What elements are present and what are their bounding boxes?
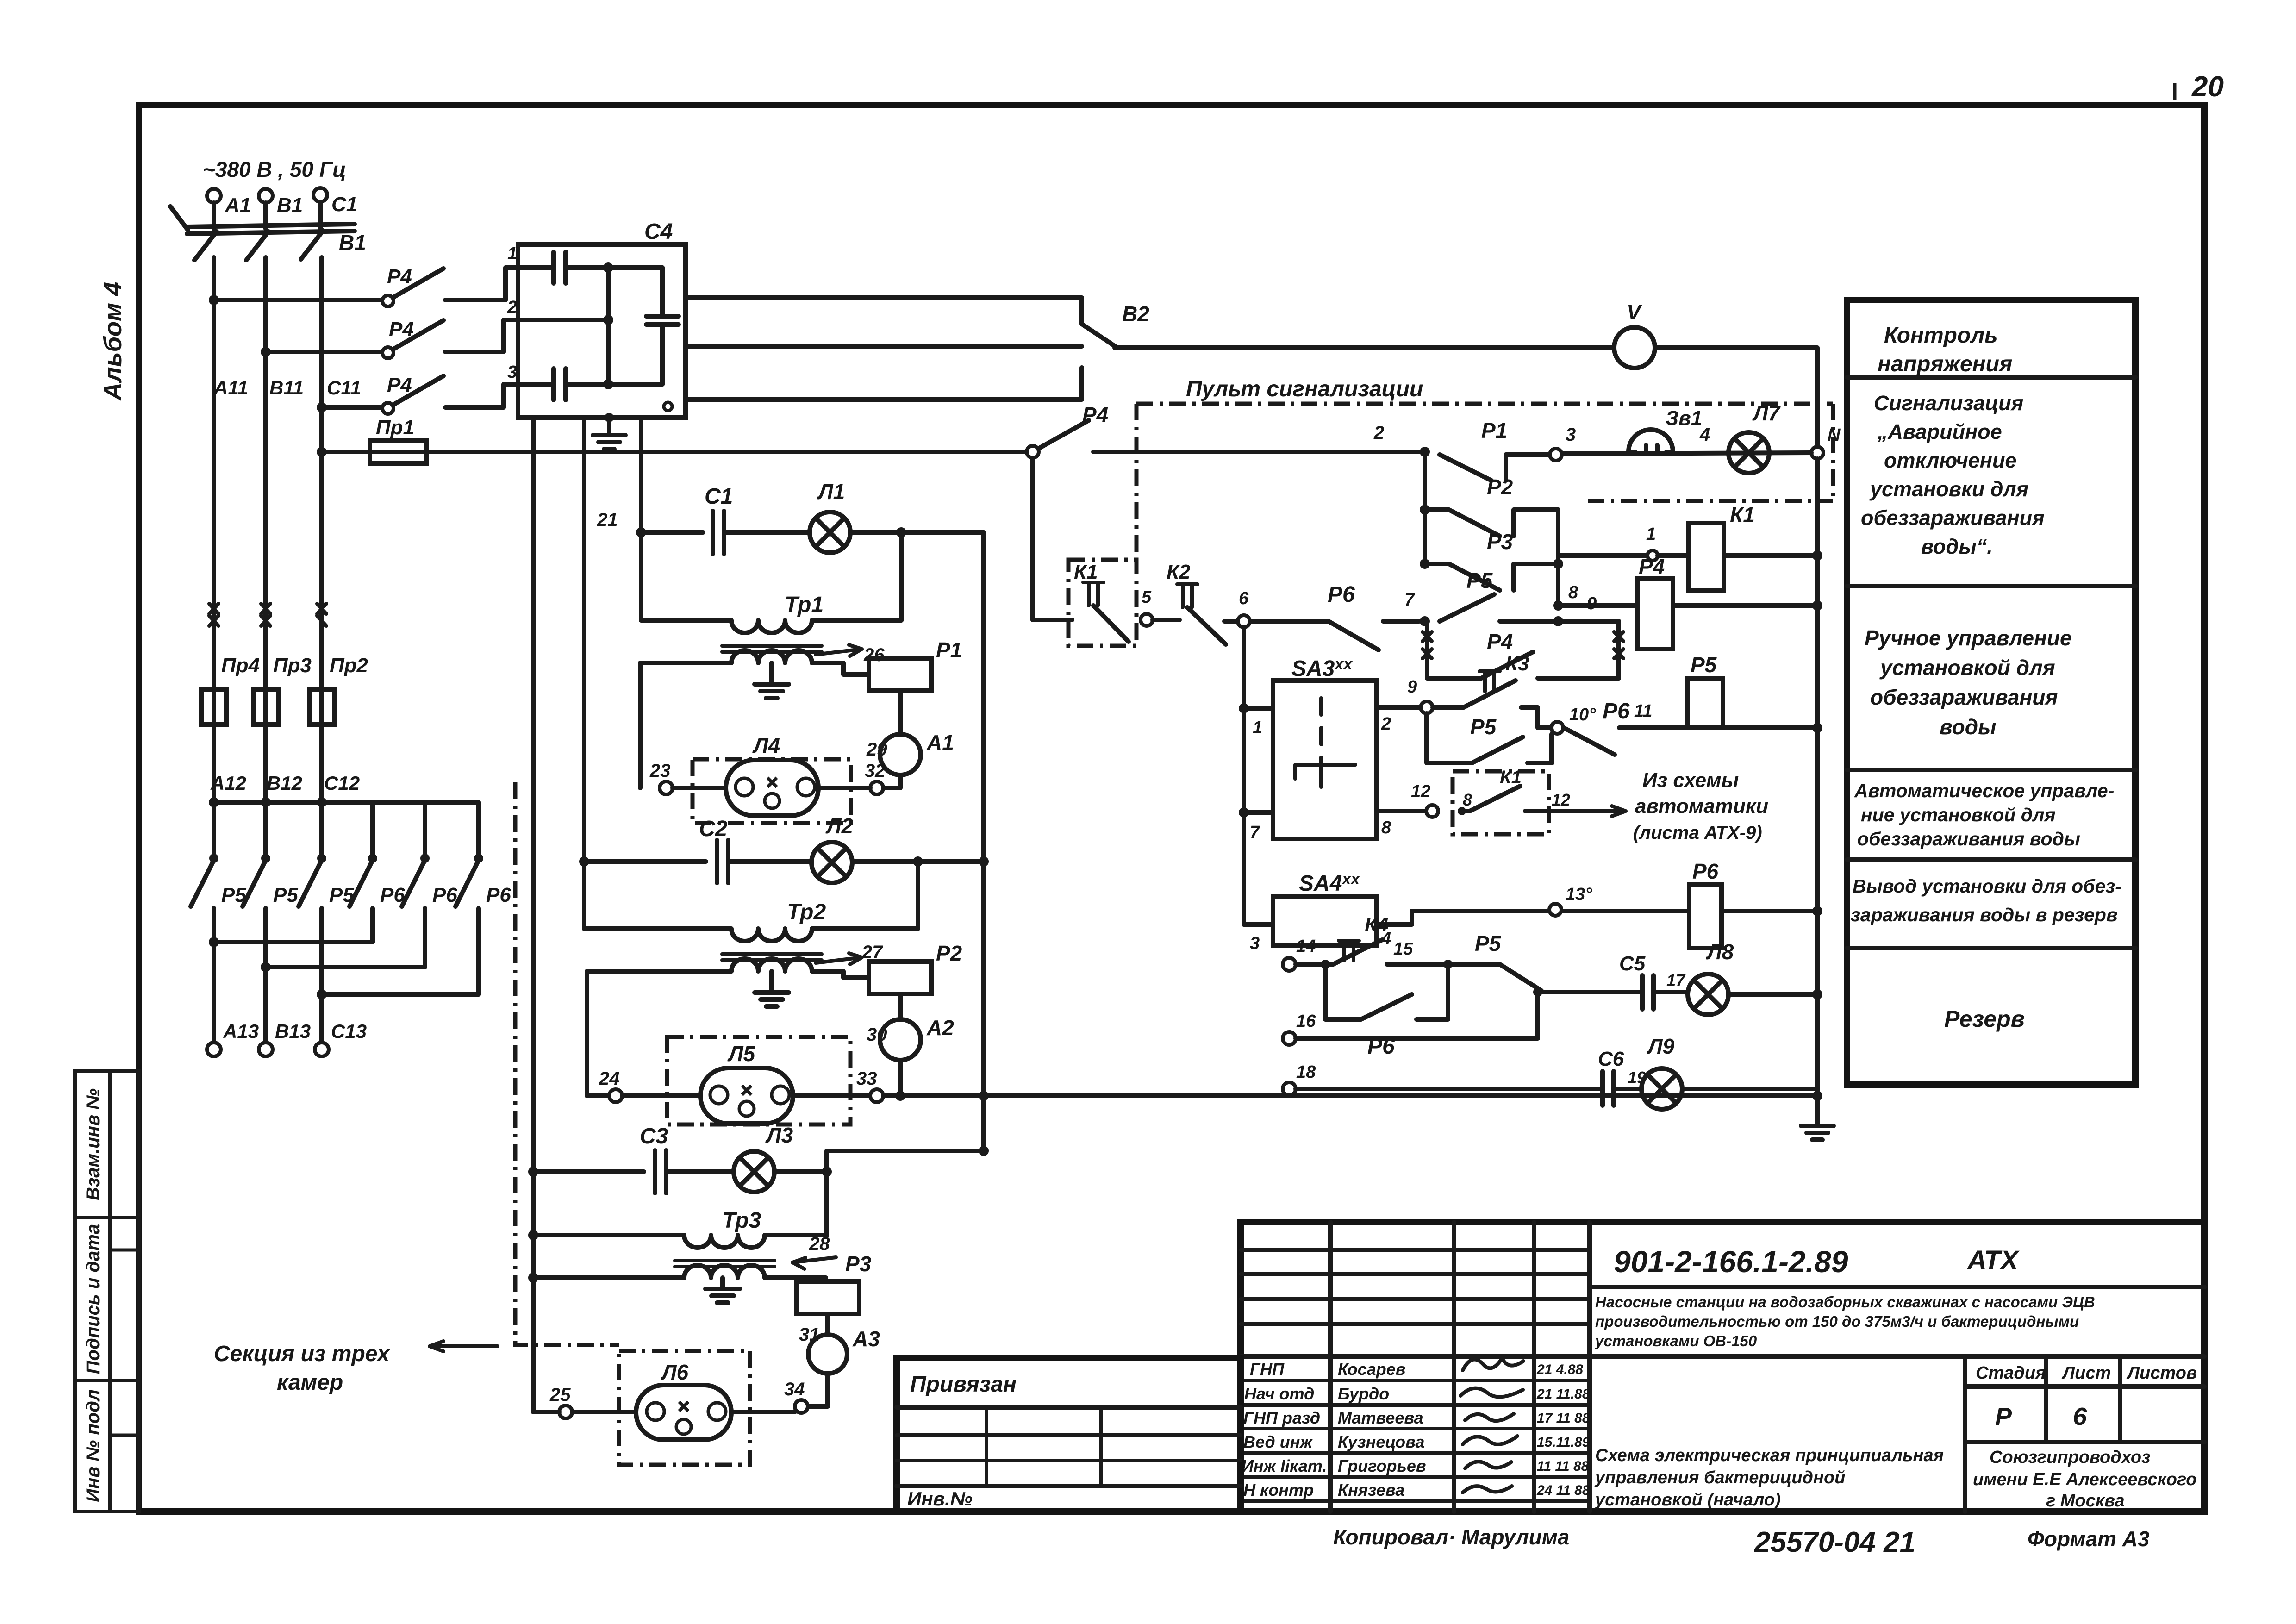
wire P1 to A1: [898, 691, 903, 734]
big vertical collector: [981, 532, 986, 1151]
svg-text:Резерв: Резерв: [1944, 1006, 2025, 1032]
relay coil P1: [869, 658, 931, 691]
wire K4 to P5: [1387, 962, 1500, 967]
Tr2 ground: [769, 971, 774, 993]
svg-text:Тр2: Тр2: [787, 900, 826, 924]
svg-text:1: 1: [1646, 525, 1656, 544]
feeder xB: [582, 418, 586, 929]
wire to node 10: [1521, 707, 1551, 728]
SA3 pin 8 to node 12: [1377, 809, 1426, 813]
Tr3 secondary left wire: [533, 1275, 684, 1280]
svg-text:11 11 88: 11 11 88: [1537, 1459, 1589, 1474]
C4 cap 3 plates: [551, 369, 556, 400]
SA3 pin 7: [1244, 810, 1273, 815]
svg-text:Союзгипроводхоз: Союзгипроводхоз: [1990, 1448, 2151, 1467]
left stamp divider 2: [75, 1379, 139, 1382]
svg-text:Князева: Князева: [1338, 1480, 1404, 1499]
ammeter A3: [808, 1335, 847, 1374]
lamp unit L5 dash box: [667, 1037, 850, 1124]
Tr3 secondary winding: [684, 1265, 765, 1278]
svg-text:(листа АТХ-9): (листа АТХ-9): [1633, 823, 1762, 843]
svg-text:Р1: Р1: [936, 638, 962, 662]
Tr2 secondary winding: [731, 959, 812, 971]
relay coil P2: [869, 962, 931, 994]
wire A3 to 34: [808, 1374, 828, 1406]
svg-text:13°: 13°: [1566, 885, 1592, 904]
terminal 34: [795, 1400, 808, 1413]
svg-text:В2: В2: [1122, 302, 1149, 326]
relay coil P4: [1637, 579, 1673, 649]
svg-text:Контроль: Контроль: [1884, 323, 1998, 348]
lamp L8: [1688, 974, 1728, 1015]
C4 node 2 jog: [504, 320, 608, 352]
svg-text:С11: С11: [327, 377, 361, 399]
wire L5 to 33: [793, 1093, 870, 1098]
node 10: [1551, 722, 1563, 734]
break marks phase B: [261, 604, 270, 626]
chatter contact P4 left leg: [1425, 621, 1429, 678]
svg-text:Р1: Р1: [1481, 418, 1507, 443]
contact P6 loop: [1325, 964, 1361, 1019]
rung P4 coil: [1558, 603, 1637, 608]
ladder vertical: [1423, 452, 1427, 564]
wire after P4-3: [445, 405, 504, 410]
wire Tr1 primary right riser: [899, 532, 904, 620]
wire L9 to bus: [1682, 1087, 1817, 1091]
svg-text:С3: С3: [640, 1124, 668, 1149]
dash boundary top: [1136, 402, 1833, 406]
wire L4 to 32: [818, 786, 870, 790]
svg-text:А11: А11: [213, 377, 248, 399]
ladder right vertical: [1556, 510, 1560, 606]
dash boundary right: [1831, 404, 1835, 501]
svg-text:отключение: отключение: [1884, 449, 2016, 472]
contact K1 dash box: [1068, 560, 1136, 646]
lamp L6 oval: [636, 1385, 731, 1440]
svg-text:Копировал· Марулима: Копировал· Марулима: [1333, 1525, 1569, 1549]
svg-text:автоматики: автоматики: [1635, 795, 1768, 818]
left stamp small divider a: [110, 1249, 139, 1252]
svg-text:17: 17: [1666, 971, 1686, 990]
ground under C4: [593, 433, 625, 437]
svg-text:Л9: Л9: [1647, 1034, 1675, 1058]
svg-text:Р4: Р4: [1639, 555, 1665, 579]
terminal on Пр1 line: [1027, 446, 1039, 458]
fuse Пр1: [370, 440, 427, 463]
svg-text:Р6: Р6: [486, 884, 511, 906]
C4 node 3 jog: [504, 384, 554, 407]
svg-text:12: 12: [1411, 782, 1430, 801]
capacitor C3: [653, 1150, 657, 1193]
svg-text:Р5: Р5: [1475, 931, 1502, 956]
svg-text:Зв1: Зв1: [1666, 407, 1702, 430]
wire phase A down: [212, 257, 216, 802]
divider under description: [1590, 1354, 2204, 1359]
svg-text:имени Е.Е Алексеевского: имени Е.Е Алексеевского: [1973, 1470, 2197, 1489]
svg-text:воды“.: воды“.: [1921, 535, 1993, 558]
left stamp small divider b: [110, 1434, 139, 1437]
wire from Пр1 terminal down: [1030, 458, 1035, 620]
svg-text:1: 1: [507, 244, 517, 263]
relay coil K1: [1689, 523, 1724, 591]
svg-text:Р6: Р6: [1328, 582, 1355, 607]
svg-text:Р: Р: [1995, 1403, 2012, 1430]
svg-text:Пр1: Пр1: [376, 416, 414, 439]
feeder xC: [639, 418, 643, 620]
wire 24 left: [587, 1093, 609, 1098]
wire stub A: [212, 203, 216, 229]
switch SA4 box: [1273, 897, 1377, 945]
svg-text:28: 28: [809, 1234, 830, 1254]
svg-text:25570-04 21: 25570-04 21: [1754, 1526, 1915, 1558]
capacitor C6: [1600, 1071, 1605, 1106]
Tr1 core: [722, 644, 822, 648]
svg-text:С1: С1: [705, 484, 733, 509]
node 7: [1420, 616, 1430, 626]
wire P2 to A2: [898, 994, 903, 1019]
svg-text:напряжения: напряжения: [1878, 352, 2012, 376]
Привязан grid: [897, 1405, 1241, 1410]
svg-text:управления бактерицидной: управления бактерицидной: [1594, 1468, 1845, 1487]
svg-text:Р4: Р4: [1082, 403, 1108, 427]
svg-text:Р5: Р5: [273, 884, 298, 906]
svg-text:С12: С12: [324, 772, 360, 794]
svg-text:А2: А2: [926, 1016, 954, 1040]
C4 wire bottom: [566, 382, 662, 387]
svg-text:1: 1: [1253, 718, 1262, 737]
svg-text:3: 3: [507, 362, 517, 382]
svg-text:Косарев: Косарев: [1338, 1360, 1406, 1379]
node 13: [1549, 904, 1561, 916]
Tr1 secondary left wire: [640, 663, 731, 788]
svg-text:К1: К1: [1500, 767, 1522, 787]
svg-text:SA3хх: SA3хх: [1291, 656, 1353, 681]
Tr1 secondary winding: [731, 650, 812, 663]
contact P5 below node 9: [1427, 713, 1472, 763]
terminal B1: [259, 189, 273, 203]
Tr3 primary right riser: [765, 1172, 827, 1235]
svg-text:21 11.88: 21 11.88: [1536, 1387, 1590, 1402]
svg-text:15.11.89: 15.11.89: [1537, 1435, 1590, 1450]
svg-text:К1: К1: [1730, 503, 1755, 527]
C4 cap 2 vertical: [660, 268, 665, 316]
contact P4-3 terminal: [382, 403, 393, 414]
fuse Пр3: [253, 690, 278, 725]
svg-text:К1: К1: [1074, 561, 1098, 583]
svg-text:2: 2: [1373, 423, 1384, 443]
svg-text:С13: С13: [331, 1020, 367, 1042]
wire L2 right: [852, 859, 984, 864]
svg-text:21: 21: [597, 510, 618, 530]
wire bus C: [322, 405, 382, 410]
svg-text:8: 8: [1463, 790, 1472, 809]
wire P5-3 down: [319, 908, 324, 1042]
svg-text:17 11 88: 17 11 88: [1537, 1411, 1590, 1426]
svg-text:Пульт сигнализации: Пульт сигнализации: [1186, 377, 1423, 401]
signature rows: [1241, 1379, 1590, 1382]
svg-text:Р3: Р3: [845, 1252, 872, 1276]
Tr3 ground: [720, 1278, 725, 1289]
lamp unit L6 dash box: [619, 1351, 750, 1465]
svg-text:Л2: Л2: [825, 814, 854, 838]
contact K1 auto: [1458, 807, 1466, 815]
wire 13 to P6 coil: [1562, 909, 1689, 913]
terminal B13: [259, 1043, 273, 1056]
svg-text:Вед инж: Вед инж: [1243, 1432, 1313, 1451]
svg-text:обеззараживания: обеззараживания: [1861, 506, 2045, 530]
C4 wire top: [566, 265, 662, 270]
svg-text:воды: воды: [1940, 715, 1996, 739]
svg-text:9: 9: [1407, 677, 1417, 697]
wire A1 to 32: [884, 775, 900, 788]
svg-text:Л1: Л1: [817, 480, 845, 504]
section boundary dash: [515, 782, 619, 1345]
SA4 pin 4 to node 13: [1377, 911, 1549, 924]
switch B1 handle: [170, 206, 188, 230]
svg-text:6: 6: [2073, 1403, 2087, 1430]
Tr1 tap arrow 26: [816, 645, 862, 656]
wire stub B: [263, 203, 268, 229]
contact P6-3: [474, 854, 483, 863]
node bus B: [261, 347, 271, 357]
wire P5-2 down: [263, 908, 268, 1042]
svg-text:Взам.инв №: Взам.инв №: [83, 1088, 103, 1200]
svg-text:В13: В13: [275, 1020, 311, 1042]
contact P4-2 blade: [393, 320, 443, 349]
svg-text:31: 31: [799, 1324, 820, 1345]
wire row C5: [1538, 990, 1642, 994]
wire Tr2 primary right riser: [812, 862, 918, 929]
wire line B to voltmeter: [1115, 345, 1614, 350]
switch B1 blade B: [246, 231, 268, 260]
contact stubs down: [212, 802, 216, 856]
contact P5-1: [209, 854, 218, 863]
svg-text:Н контр: Н контр: [1243, 1480, 1314, 1499]
panel divider 3: [1847, 768, 2135, 772]
svg-text:С5: С5: [1619, 952, 1646, 975]
wire row 16: [1296, 992, 1538, 1038]
svg-text:16: 16: [1296, 1012, 1316, 1031]
panel divider 1: [1847, 375, 2135, 380]
svg-text:Секция из трех: Секция из трех: [214, 1342, 391, 1366]
svg-text:Л4: Л4: [752, 733, 780, 757]
Tr2 secondary right wire: [812, 971, 869, 978]
svg-text:А3: А3: [852, 1327, 880, 1351]
svg-text:4: 4: [1699, 425, 1710, 445]
svg-text:К4: К4: [1365, 913, 1389, 936]
svg-text:Подпись и дата: Подпись и дата: [83, 1224, 103, 1374]
dash boundary left: [1135, 404, 1139, 560]
svg-text:С6: С6: [1598, 1048, 1624, 1070]
title block left part Привязан: [897, 1358, 1241, 1512]
wire phase C down: [319, 257, 324, 802]
svg-text:В1: В1: [339, 231, 366, 255]
terminal 32: [870, 781, 883, 794]
svg-text:Р5: Р5: [1466, 568, 1493, 593]
Tr3 primary winding: [533, 1235, 765, 1248]
break marks phase A: [209, 604, 218, 626]
svg-text:А1: А1: [225, 194, 251, 217]
contact P5-3: [317, 854, 326, 863]
terminal 24: [609, 1089, 622, 1102]
svg-text:установки для: установки для: [1869, 477, 2028, 501]
svg-text:Тр1: Тр1: [785, 593, 824, 617]
arrow to automation: [1581, 806, 1626, 816]
svg-text:24: 24: [599, 1068, 620, 1089]
contact P4-1 blade: [393, 269, 443, 297]
node 3: [1550, 449, 1562, 461]
wire after P4-1: [445, 298, 505, 302]
bell Зв1: [1628, 430, 1673, 452]
left stamp divider 1: [75, 1216, 139, 1219]
wire stub C: [318, 202, 323, 229]
right panel box: [1847, 300, 2135, 1085]
wire phase B down: [263, 257, 268, 802]
svg-text:Сигнализация: Сигнализация: [1874, 391, 2023, 415]
wire 25 to L6: [572, 1410, 636, 1414]
svg-text:А1: А1: [926, 731, 954, 755]
wire L1 to vertical: [850, 530, 984, 535]
wire P5-1 down: [212, 908, 216, 1042]
terminal 14: [1283, 958, 1296, 971]
svg-text:18: 18: [1296, 1062, 1316, 1082]
svg-text:Нач отд: Нач отд: [1244, 1384, 1314, 1403]
contact P3 rung: [1420, 559, 1430, 569]
svg-text:12: 12: [1552, 790, 1570, 809]
svg-text:Л7: Л7: [1752, 401, 1781, 425]
wire P6-3 down: [476, 908, 481, 994]
terminal 25: [559, 1405, 572, 1418]
lamp L4 oval: [726, 760, 818, 816]
contact P4-1 terminal: [382, 295, 393, 306]
svg-text:Р2: Р2: [936, 941, 962, 965]
wire bus A: [214, 298, 382, 302]
contact P4 signal blade: [1039, 420, 1089, 448]
voltmeter V: [1614, 327, 1655, 368]
svg-text:34: 34: [784, 1379, 805, 1399]
wire C3 to L3: [666, 1169, 734, 1174]
contact K2: [1153, 618, 1179, 622]
svg-text:обеззараживания воды: обеззараживания воды: [1857, 828, 2080, 849]
Tr2 primary winding: [584, 929, 812, 941]
node N terminal: [1811, 447, 1823, 459]
svg-text:Р3: Р3: [1487, 530, 1513, 554]
svg-text:Пр2: Пр2: [330, 654, 368, 677]
ammeter A1: [880, 734, 921, 775]
wire A2 to 33: [898, 1060, 903, 1096]
contact P1: [1440, 455, 1491, 481]
wire row A12 bus: [214, 800, 479, 805]
wire 25 left: [533, 1410, 559, 1414]
drawing frame: [139, 105, 2204, 1512]
capacitor C2: [715, 840, 719, 883]
C4 ground stem: [607, 418, 611, 435]
svg-text:3: 3: [1250, 934, 1260, 953]
wire L6 to 34: [731, 1410, 795, 1414]
link row 2: [266, 965, 425, 969]
node bus C: [317, 402, 327, 412]
contact K3: [1433, 705, 1464, 710]
lamp L1: [810, 512, 850, 553]
chatter contact P4 right leg: [1616, 621, 1621, 678]
svg-text:Ручное управление: Ручное управление: [1865, 626, 2072, 650]
lamp L3: [734, 1151, 774, 1192]
Tr3 core: [675, 1259, 774, 1262]
wire C2 to L2: [728, 859, 811, 864]
svg-text:SA4хх: SA4хх: [1299, 870, 1360, 896]
svg-text:2: 2: [507, 298, 517, 317]
contact P6 rung 10-11: [1564, 728, 1615, 755]
svg-text:обеззараживания: обеззараживания: [1870, 685, 2058, 709]
relay coil P5: [1687, 678, 1723, 728]
wire line 2: [1093, 450, 1425, 454]
svg-text:Р6: Р6: [1692, 859, 1719, 883]
svg-text:К3: К3: [1505, 652, 1529, 675]
contact P5 row: [1440, 594, 1494, 621]
signature table upper rows: [1241, 1248, 1590, 1252]
SA3 pin 2 to node 9: [1377, 705, 1420, 710]
svg-text:Инв.№: Инв.№: [907, 1488, 973, 1510]
svg-text:5: 5: [1142, 587, 1152, 607]
svg-text:23: 23: [649, 761, 671, 781]
lamp unit L4 dash box: [693, 759, 851, 823]
svg-text:Привязан: Привязан: [910, 1372, 1017, 1397]
svg-text:Пр4: Пр4: [221, 654, 260, 677]
svg-text:Автоматическое управле-: Автоматическое управле-: [1854, 780, 2114, 801]
svg-text:Р6: Р6: [1603, 699, 1630, 724]
svg-text:Л5: Л5: [727, 1042, 756, 1066]
svg-text:К2: К2: [1167, 561, 1191, 583]
N bus vertical: [1815, 459, 1820, 1125]
lamp L5 oval: [700, 1068, 793, 1124]
svg-text:6: 6: [1239, 589, 1249, 608]
contact P4-2 terminal: [382, 347, 393, 358]
svg-text:2: 2: [1381, 714, 1391, 734]
svg-text:9: 9: [1587, 594, 1597, 613]
Tr1 secondary right wire: [812, 663, 869, 675]
wire row C2: [584, 859, 706, 864]
svg-text:21 4.88: 21 4.88: [1536, 1362, 1583, 1377]
contact K4: [1296, 962, 1333, 967]
stadia grid: [1963, 1356, 1967, 1512]
SA3 pin 1: [1244, 706, 1273, 711]
tick mark: [2173, 83, 2177, 100]
svg-text:15: 15: [1393, 939, 1413, 959]
svg-text:32: 32: [865, 761, 886, 781]
contact K1: [1083, 582, 1104, 606]
switch SA3 box: [1273, 681, 1377, 839]
contact P4-3 blade: [393, 376, 443, 405]
panel divider 5: [1847, 946, 2135, 950]
C4 mid vertical: [606, 268, 611, 384]
svg-text:производительностью от 150 до: производительностью от 150 до 375м3/ч и …: [1595, 1313, 2079, 1330]
svg-text:ГНП разд: ГНП разд: [1243, 1408, 1320, 1427]
relay coil P3: [797, 1281, 859, 1314]
svg-text:В1: В1: [277, 194, 303, 217]
terminal 16: [1283, 1032, 1296, 1045]
svg-text:24 11 88: 24 11 88: [1536, 1483, 1590, 1498]
svg-text:901-2-166.1-2.89: 901-2-166.1-2.89: [1614, 1244, 1848, 1279]
svg-text:Лист: Лист: [2061, 1363, 2111, 1383]
wire after P4-2: [445, 350, 504, 354]
title block vertical doc sep: [1587, 1222, 1592, 1512]
Tr3 secondary right wire: [765, 1278, 826, 1281]
terminal A1: [207, 189, 221, 203]
svg-text:Матвеева: Матвеева: [1338, 1408, 1423, 1427]
terminal 33: [870, 1089, 883, 1102]
switch B1 linkage bar: [187, 224, 355, 227]
wire row 21: [641, 530, 703, 535]
